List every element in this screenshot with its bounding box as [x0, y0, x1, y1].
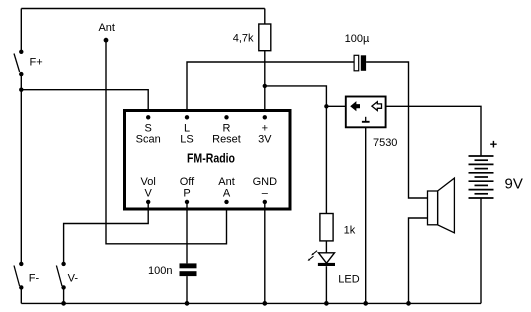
wire V- to rail [63, 287, 65, 303]
wire capacitor to speaker top [366, 62, 427, 198]
node antenna terminal [98, 22, 115, 43]
node 100n rail junction [185, 301, 190, 306]
wire regulator output to battery plus [386, 106, 481, 156]
pin plus 3V [258, 115, 272, 145]
switch F+ [14, 50, 43, 77]
wire Off pin to capacitor 100n [186, 202, 188, 264]
battery BT 9V [469, 136, 523, 198]
svg-text:LS: LS [180, 133, 193, 145]
pin S Scan [136, 115, 161, 145]
wire top rail [21, 8, 264, 10]
wire F- to rail corner [20, 287, 22, 303]
pin R Reset [212, 115, 241, 145]
node junction regulator input [324, 104, 328, 108]
switch F- [14, 262, 40, 290]
wire F+ junction to S pin [21, 90, 148, 118]
pin GND minus [253, 176, 278, 204]
svg-text:–: – [262, 188, 269, 200]
wire top rail to resistor R 4,7k [264, 9, 266, 25]
node GND rail junction [262, 301, 267, 306]
svg-text:F-: F- [29, 273, 40, 285]
svg-text:Ant: Ant [218, 176, 235, 188]
svg-text:100n: 100n [148, 265, 172, 277]
svg-text:3V: 3V [258, 133, 272, 145]
wire left rail upper [20, 9, 22, 52]
svg-text:4,7k: 4,7k [233, 33, 254, 45]
IC U1 FM-Radio [125, 111, 291, 210]
pin Vol V [141, 176, 156, 204]
pin L LS [180, 115, 193, 145]
wire speaker bottom to ground rail [409, 218, 428, 303]
node LED rail junction [324, 301, 329, 306]
wire left rail middle [20, 74, 22, 264]
wire junction to resistor 1k [325, 106, 327, 213]
wire capacitor 100n to rail [186, 276, 188, 303]
wire LED to rail [325, 266, 327, 303]
node V- rail junction [61, 301, 66, 306]
node speaker rail junction [406, 301, 411, 306]
svg-text:LED: LED [338, 274, 359, 286]
wire 1k to LED [325, 241, 327, 253]
LED D1 [308, 251, 360, 286]
resistor R 1k [320, 214, 356, 241]
svg-text:Reset: Reset [212, 133, 241, 145]
svg-text:A: A [223, 188, 231, 200]
wire 3V junction to regulator input [265, 86, 346, 106]
node junction F+ to S [19, 88, 23, 92]
pin Off P [180, 176, 195, 204]
switch V- [56, 262, 78, 290]
svg-text:Off: Off [180, 176, 195, 188]
wire regulator ground to rail [365, 127, 367, 303]
wire Vol pin to switch V- [64, 202, 149, 264]
regulator U 7530 [346, 97, 398, 150]
svg-text:+: + [490, 136, 498, 151]
svg-text:Vol: Vol [141, 176, 156, 188]
speaker LS1 [428, 178, 455, 233]
resistor R 4,7k [233, 24, 271, 51]
pin Ant A [218, 176, 235, 204]
svg-text:9V: 9V [505, 176, 523, 193]
wire resistor to 3V pin [264, 51, 266, 118]
wire battery minus to rail [480, 198, 482, 303]
wire bottom rail [21, 302, 481, 304]
svg-text:7530: 7530 [373, 137, 397, 149]
svg-text:Scan: Scan [136, 133, 161, 145]
wire GND pin to rail [264, 202, 266, 304]
capacitor C 100n [148, 263, 196, 277]
svg-text:V: V [145, 188, 153, 200]
svg-text:P: P [183, 188, 190, 200]
svg-text:Ant: Ant [98, 22, 115, 34]
svg-text:1k: 1k [344, 225, 356, 237]
svg-text:GND: GND [253, 176, 278, 188]
capacitor C 100u [345, 33, 370, 71]
svg-text:F+: F+ [30, 57, 43, 69]
wire antenna to A pin [106, 40, 227, 244]
node regulator ground rail junction [363, 301, 368, 306]
svg-text:V-: V- [68, 273, 79, 285]
svg-text:FM-Radio: FM-Radio [187, 151, 235, 166]
svg-text:100µ: 100µ [345, 33, 370, 45]
wire L pin to capacitor [187, 62, 354, 117]
node junction 3V line [263, 84, 267, 88]
